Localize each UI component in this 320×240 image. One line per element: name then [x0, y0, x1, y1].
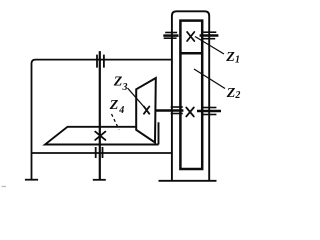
svg-text:Z: Z [225, 50, 235, 65]
svg-text:3: 3 [122, 82, 128, 93]
svg-text:Z: Z [109, 98, 119, 113]
svg-text:1: 1 [235, 55, 240, 66]
svg-text:Z: Z [226, 86, 236, 101]
svg-text:4: 4 [118, 105, 124, 116]
svg-text:Z: Z [113, 75, 123, 90]
svg-text:2: 2 [234, 90, 240, 101]
